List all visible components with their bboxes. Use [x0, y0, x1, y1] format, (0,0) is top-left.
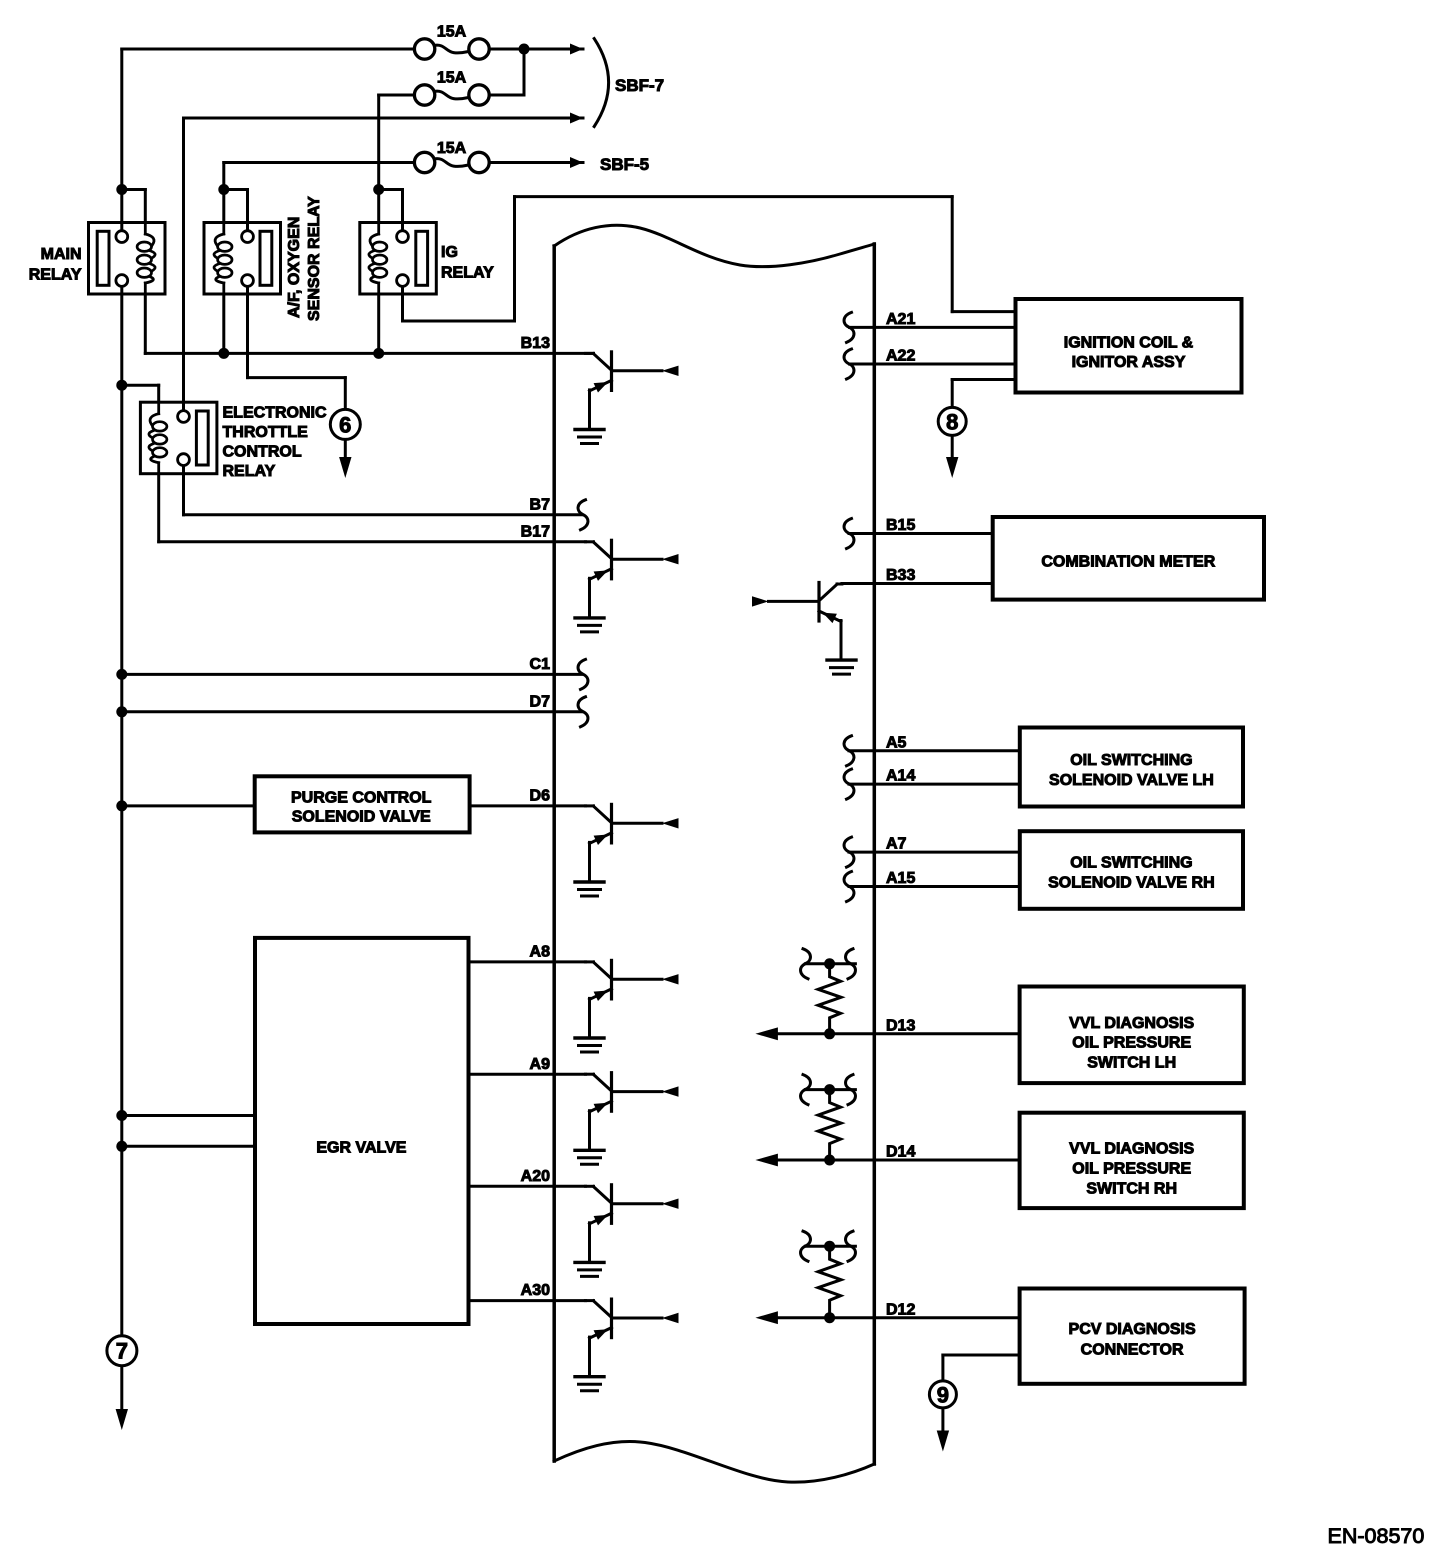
- svg-text:VVL DIAGNOSIS: VVL DIAGNOSIS: [1069, 1141, 1194, 1158]
- svg-text:B7: B7: [530, 496, 551, 513]
- svg-text:MAIN: MAIN: [41, 246, 82, 263]
- svg-text:OIL SWITCHING: OIL SWITCHING: [1070, 752, 1192, 769]
- svg-text:OIL SWITCHING: OIL SWITCHING: [1070, 855, 1192, 872]
- svg-text:SOLENOID VALVE: SOLENOID VALVE: [292, 809, 431, 826]
- svg-text:D12: D12: [886, 1301, 915, 1318]
- svg-text:IGNITION COIL &: IGNITION COIL &: [1064, 335, 1194, 352]
- svg-text:SWITCH RH: SWITCH RH: [1086, 1181, 1177, 1198]
- svg-text:C1: C1: [530, 656, 551, 673]
- svg-text:D6: D6: [530, 788, 551, 805]
- svg-text:OIL PRESSURE: OIL PRESSURE: [1072, 1161, 1191, 1178]
- svg-text:A21: A21: [886, 311, 915, 328]
- svg-text:7: 7: [116, 1339, 128, 1364]
- svg-text:SWITCH LH: SWITCH LH: [1087, 1055, 1176, 1072]
- svg-text:CONTROL: CONTROL: [223, 444, 302, 461]
- svg-text:15A: 15A: [437, 70, 467, 87]
- svg-text:VVL DIAGNOSIS: VVL DIAGNOSIS: [1069, 1015, 1194, 1032]
- svg-text:SBF-7: SBF-7: [615, 76, 664, 95]
- svg-text:EGR VALVE: EGR VALVE: [316, 1140, 406, 1157]
- svg-text:A8: A8: [530, 944, 551, 961]
- svg-text:D13: D13: [886, 1017, 915, 1034]
- svg-text:15A: 15A: [437, 140, 467, 157]
- svg-text:A5: A5: [886, 734, 907, 751]
- svg-text:SENSOR RELAY: SENSOR RELAY: [306, 196, 323, 321]
- svg-text:15A: 15A: [437, 24, 467, 41]
- svg-text:EN-08570: EN-08570: [1328, 1524, 1425, 1548]
- svg-text:PURGE CONTROL: PURGE CONTROL: [291, 790, 432, 807]
- svg-text:9: 9: [937, 1382, 949, 1407]
- svg-text:A30: A30: [521, 1282, 550, 1299]
- svg-text:A7: A7: [886, 836, 907, 853]
- svg-text:A20: A20: [521, 1168, 550, 1185]
- svg-text:CONNECTOR: CONNECTOR: [1081, 1342, 1184, 1359]
- svg-text:B13: B13: [521, 335, 550, 352]
- svg-text:SOLENOID VALVE LH: SOLENOID VALVE LH: [1049, 772, 1214, 789]
- svg-text:COMBINATION METER: COMBINATION METER: [1041, 554, 1215, 571]
- svg-text:RELAY: RELAY: [441, 265, 494, 282]
- svg-text:A/F, OXYGEN: A/F, OXYGEN: [286, 217, 303, 318]
- svg-text:IGNITOR ASSY: IGNITOR ASSY: [1072, 354, 1186, 371]
- svg-text:B15: B15: [886, 517, 915, 534]
- svg-text:A22: A22: [886, 348, 915, 365]
- svg-text:ELECTRONIC: ELECTRONIC: [223, 405, 327, 422]
- svg-text:A15: A15: [886, 870, 915, 887]
- svg-text:SOLENOID VALVE RH: SOLENOID VALVE RH: [1048, 875, 1215, 892]
- svg-text:SBF-5: SBF-5: [600, 155, 649, 174]
- svg-text:A14: A14: [886, 768, 915, 785]
- svg-text:RELAY: RELAY: [29, 267, 82, 284]
- svg-text:IG: IG: [441, 244, 458, 261]
- svg-text:PCV DIAGNOSIS: PCV DIAGNOSIS: [1069, 1321, 1196, 1338]
- svg-text:THROTTLE: THROTTLE: [223, 424, 309, 441]
- svg-text:D14: D14: [886, 1144, 915, 1161]
- svg-text:6: 6: [339, 412, 351, 437]
- svg-text:D7: D7: [530, 693, 551, 710]
- svg-text:A9: A9: [530, 1056, 551, 1073]
- svg-text:OIL PRESSURE: OIL PRESSURE: [1072, 1035, 1191, 1052]
- svg-text:B17: B17: [521, 523, 550, 540]
- svg-text:RELAY: RELAY: [223, 463, 276, 480]
- svg-text:B33: B33: [886, 567, 915, 584]
- svg-text:8: 8: [946, 409, 958, 434]
